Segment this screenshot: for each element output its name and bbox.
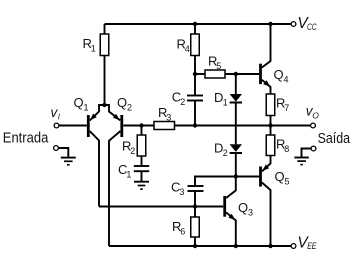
svg-text:Q: Q <box>238 200 248 215</box>
node output ground terminal circle <box>311 146 316 151</box>
wire Q5 base <box>236 176 259 178</box>
node VCC terminal circle <box>291 22 296 27</box>
wire R6 bottom stub <box>194 237 196 246</box>
wire Q3 base line from Q1 collector <box>99 206 223 208</box>
transistor Q3 collector <box>226 177 236 199</box>
transistor Q2 base bar <box>120 115 123 137</box>
wire R5 to Q4 base <box>225 73 259 75</box>
resistor R8 <box>266 135 275 156</box>
svg-text:4: 4 <box>185 44 190 54</box>
svg-text:O: O <box>312 111 319 121</box>
node junction Q5 collector bottom <box>268 244 272 248</box>
transistor Q2 collector <box>109 131 120 246</box>
wire bottom VEE rail <box>109 245 291 247</box>
svg-text:5: 5 <box>285 177 290 187</box>
wire R5 left stub <box>195 73 205 75</box>
wire C3 bottom stub <box>194 191 196 207</box>
node junction C3-R6-Q3 base <box>193 204 197 208</box>
wire R7 to R8 <box>270 116 272 136</box>
resistor R3 <box>154 122 175 130</box>
svg-text:3: 3 <box>179 187 184 197</box>
resistor R6 <box>191 217 200 237</box>
node input ground terminal circle <box>54 146 59 151</box>
node output terminal circle vo <box>311 123 316 128</box>
capacitor C1 <box>134 165 149 167</box>
wire C3 top line <box>195 177 236 186</box>
node junction top of R4 <box>193 22 197 26</box>
ground input <box>58 148 68 158</box>
transistor Q4 collector <box>262 24 271 68</box>
transistor Q4 base bar <box>259 64 262 84</box>
node VEE terminal circle <box>291 244 296 249</box>
node junction Q3 emitter bottom <box>234 244 238 248</box>
svg-text:2: 2 <box>223 148 228 158</box>
svg-text:CC: CC <box>307 22 317 32</box>
svg-text:1: 1 <box>126 170 131 180</box>
transistor Q2 emitter <box>105 105 121 120</box>
svg-text:EE: EE <box>307 241 317 251</box>
transistor Q3 base bar <box>223 196 226 217</box>
wire R2 top stub <box>141 126 143 136</box>
svg-text:6: 6 <box>180 227 185 237</box>
diode D1 <box>235 74 237 94</box>
capacitor C2 <box>187 95 203 97</box>
svg-text:2: 2 <box>127 103 132 113</box>
transistor Q3 emitter <box>226 212 236 246</box>
svg-text:2: 2 <box>180 97 185 107</box>
transistor Q1 collector <box>90 131 99 207</box>
wire Q2 base to R3 <box>123 125 154 127</box>
node emitter junction Q1-Q2 <box>102 103 106 107</box>
wire R6 top stub <box>194 207 196 218</box>
svg-text:3: 3 <box>166 113 171 123</box>
svg-text:I: I <box>58 112 61 121</box>
node junction D2-C3-Q5 base-Q3 collector <box>234 174 238 178</box>
capacitor C3 <box>188 185 204 187</box>
wire R1 bottom to emitter node <box>104 56 106 106</box>
svg-text:7: 7 <box>284 103 289 113</box>
svg-text:Q: Q <box>275 169 285 184</box>
resistor R2 <box>137 135 146 156</box>
svg-text:3: 3 <box>248 208 253 218</box>
svg-text:5: 5 <box>216 61 221 71</box>
svg-text:2: 2 <box>130 146 135 156</box>
resistor R1 <box>100 34 109 56</box>
wire R1 top stub <box>104 24 106 34</box>
node junction top of Q4 collector <box>268 22 272 26</box>
transistor Q5 base bar <box>259 167 262 187</box>
node input terminal circle vi <box>54 123 59 128</box>
diode D2 <box>230 144 242 152</box>
transistor Q5 emitter from R8 <box>262 156 271 172</box>
svg-text:Q: Q <box>117 95 127 110</box>
wire top VCC rail <box>105 23 292 25</box>
svg-text:1: 1 <box>84 103 89 113</box>
wire R4 top stub <box>194 24 196 34</box>
node junction R4-R5-C2 <box>193 72 197 76</box>
resistor R7 <box>266 94 275 116</box>
wire R2 to C1 <box>141 156 143 166</box>
svg-text:Entrada: Entrada <box>3 131 49 147</box>
node junction D1 top <box>234 72 238 76</box>
wire D1 to D2 <box>235 104 237 145</box>
transistor Q1 base bar <box>87 115 90 137</box>
wire mid line R3 to output <box>175 125 311 127</box>
node junction R2 tap <box>139 123 143 127</box>
node junction C2 bottom on mid line <box>193 123 197 127</box>
wire C2 bottom to mid line <box>194 101 196 126</box>
svg-text:Q: Q <box>274 67 284 82</box>
svg-text:8: 8 <box>284 144 289 154</box>
svg-text:4: 4 <box>284 75 289 85</box>
resistor R4 <box>191 34 200 56</box>
wire R4 bottom to C2 <box>194 56 196 96</box>
resistor R5 <box>205 70 225 78</box>
svg-text:Saída: Saída <box>318 131 351 147</box>
svg-text:1: 1 <box>223 98 228 108</box>
node junction R7-R8 output <box>268 123 272 127</box>
transistor Q1 emitter <box>90 105 105 120</box>
wire Q1 base from input <box>59 125 87 127</box>
transistor Q4 emitter <box>262 80 271 94</box>
node junction R6 bottom <box>193 244 197 248</box>
ground output <box>302 149 312 158</box>
ground below C1 <box>141 171 143 182</box>
transistor Q5 collector <box>262 183 271 247</box>
wire D2 to node <box>235 154 237 177</box>
svg-text:1: 1 <box>91 44 96 54</box>
svg-text:Q: Q <box>74 95 84 110</box>
